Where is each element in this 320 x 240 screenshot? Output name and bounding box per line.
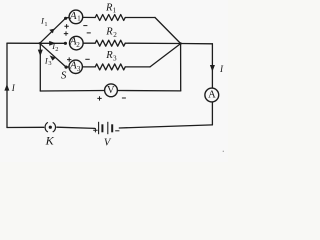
wire branch2 from J1 to A2	[40, 42, 66, 44]
polarity + of ammeter A2	[64, 31, 68, 35]
current arrow I2 on branch2 wire	[49, 41, 56, 46]
wire voltmeter branch right vertical to J2	[180, 44, 182, 91]
node A2 input dot	[64, 42, 67, 45]
svg-text:R: R	[105, 26, 113, 37]
wire A3 to resistor R3	[82, 66, 95, 68]
wire voltmeter branch right horizontal	[117, 90, 180, 92]
voltmeter V	[105, 84, 118, 97]
node A1 input dot	[64, 17, 67, 20]
wire R1 to corner	[125, 17, 155, 19]
wire branch1 dot to ammeter A1	[66, 17, 70, 18]
svg-text:V: V	[107, 85, 115, 96]
current arrow I3 on diagonal	[50, 55, 56, 60]
wire top-left horizontal	[7, 42, 40, 44]
wire branch3 diagonal from J1 to A3	[40, 43, 66, 67]
polarity - of ammeter A2	[87, 32, 91, 34]
stray speck	[223, 151, 224, 152]
wire voltmeter branch vertical from J1	[39, 43, 41, 91]
node J1	[39, 42, 41, 44]
wire voltmeter branch left horizontal	[40, 90, 104, 93]
wire A2 to resistor R2	[83, 42, 95, 44]
wire key to battery	[57, 127, 95, 128]
ammeter A3	[69, 60, 82, 74]
svg-text:3: 3	[113, 55, 117, 63]
current arrow I1 on diagonal	[49, 29, 54, 34]
svg-text:1: 1	[77, 15, 81, 23]
svg-text:S: S	[61, 70, 67, 82]
wire top-right horizontal	[181, 43, 213, 45]
polarity - of ammeter A3	[85, 58, 89, 60]
svg-text:3: 3	[77, 65, 81, 73]
polarity + of voltmeter	[97, 96, 101, 100]
wire A1 to resistor R1	[83, 16, 95, 18]
svg-text:K: K	[45, 133, 55, 147]
ammeter A2	[69, 36, 83, 50]
wire branch3 dot to ammeter A3	[66, 66, 69, 68]
wire battery to bottom-right corner	[119, 125, 212, 128]
current arrow down on voltmeter-branch vertical	[38, 50, 43, 57]
current arrow I on left rail (up)	[4, 84, 9, 91]
wire branch1 diagonal from node J1 to A1	[40, 18, 66, 43]
polarity - of ammeter A1	[83, 25, 87, 27]
svg-text:A: A	[69, 10, 77, 22]
svg-text:1: 1	[44, 21, 47, 28]
wire left rail	[6, 43, 8, 127]
wire R2 to node J2	[125, 42, 180, 44]
resistor R1	[95, 15, 125, 21]
svg-text:2: 2	[113, 31, 117, 39]
svg-text:2: 2	[76, 41, 80, 49]
resistor R3	[95, 64, 125, 70]
svg-text:R: R	[105, 50, 113, 61]
battery V (cells)	[99, 122, 113, 134]
svg-text:A: A	[208, 89, 216, 100]
polarity + of ammeter A1	[64, 24, 68, 28]
ammeter A1	[69, 10, 83, 24]
polarity - of voltmeter	[122, 97, 126, 99]
wire branch1 diagonal to node J2	[155, 18, 181, 44]
polarity + of battery	[93, 128, 97, 132]
wire bottom-left to key	[7, 126, 44, 128]
wire branch3 diagonal to node J2	[150, 44, 181, 67]
polarity + of ammeter A3	[67, 57, 71, 61]
node J2	[179, 42, 181, 44]
resistor R2	[95, 40, 125, 46]
current arrow I on right rail (down)	[210, 65, 215, 72]
svg-text:2: 2	[55, 46, 58, 53]
ammeter A (main)	[205, 88, 219, 102]
svg-text:1: 1	[113, 6, 117, 14]
svg-text:3: 3	[48, 60, 51, 67]
polarity - of battery	[115, 130, 119, 132]
wire right rail upper segment	[211, 44, 213, 88]
node A3 input dot (point S)	[65, 66, 68, 69]
key K (tap key)	[45, 122, 55, 132]
wire right rail lower segment	[211, 102, 213, 125]
wire R3 to corner	[125, 66, 150, 68]
